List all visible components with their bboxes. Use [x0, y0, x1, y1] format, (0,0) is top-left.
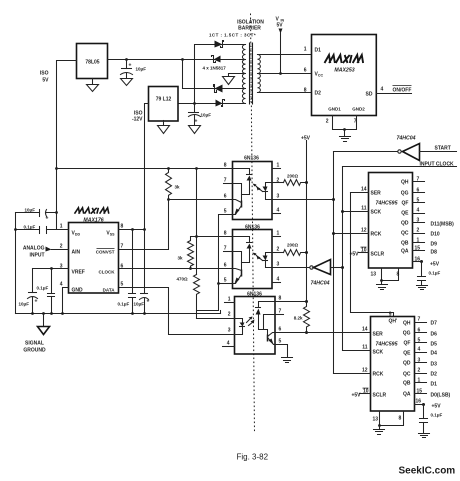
inverter U3B 74HC04: [310, 260, 331, 287]
svg-text:D9: D9: [431, 242, 438, 248]
svg-text:D11(MSB): D11(MSB): [431, 222, 455, 228]
node junction VSS 0.1uF: [131, 228, 134, 231]
ground below 78L05: [87, 79, 99, 92]
node junction ISO5V at 10uF wire: [55, 211, 58, 214]
wire ISO5V: 78L05 output left and down to MAX176 VDD: [57, 61, 77, 230]
opto2 pin 2 wire: [273, 247, 284, 253]
supply VIN 5V with arrow: [276, 17, 285, 74]
svg-text:SCK: SCK: [371, 210, 382, 216]
svg-text:7: 7: [418, 317, 421, 323]
opto2 internals: phototransistor: [233, 269, 242, 284]
label ON/OFF with overline: [393, 86, 412, 94]
svg-text:1: 1: [228, 297, 231, 303]
svg-text:QD: QD: [401, 221, 409, 227]
label ISO 5V: [40, 71, 49, 84]
svg-text:2: 2: [418, 368, 421, 374]
svg-text:QE: QE: [403, 351, 411, 357]
svg-text:-12V: -12V: [132, 117, 143, 123]
resistor R7 8.2k: [294, 302, 310, 333]
capacitor C5 0.1uF (VDD) plates: [24, 225, 47, 234]
transformer T1 primary winding (left): [242, 45, 245, 104]
svg-text:3: 3: [418, 358, 421, 364]
wire diode D3 line: [183, 88, 246, 90]
wire opto3 pin 2 to iso ground link: [197, 312, 235, 319]
opto1 pin 4 stub: [273, 208, 281, 214]
wire secondary top tap to MAX253 D1: [258, 54, 312, 56]
node junction opto pin5 bus: [217, 282, 220, 285]
node junction VSS -12V: [143, 228, 146, 231]
resistor R4 3k pullup (CLOCK): [177, 237, 196, 269]
isolation barrier dashed line: [251, 14, 255, 434]
svg-text:6: 6: [121, 264, 124, 270]
wire SCK1 from clock bus: [343, 206, 369, 212]
svg-text:QC: QC: [403, 372, 411, 378]
svg-text:QG: QG: [401, 191, 409, 197]
wire CLOCK from MAX176 to opto2 pin 6: [119, 268, 233, 270]
svg-text:D2: D2: [315, 91, 322, 97]
svg-text:12: 12: [361, 228, 367, 234]
svg-text:79 L12: 79 L12: [156, 97, 172, 103]
output stubs QH-QA U9: [415, 317, 427, 395]
wire INPUT CLOCK bus vertical down to SCK2: [342, 167, 344, 351]
svg-text:5: 5: [417, 198, 420, 204]
svg-text:AIN: AIN: [72, 250, 81, 256]
node junction GND: [343, 128, 346, 131]
svg-text:6: 6: [417, 188, 420, 194]
node junction VIN on Vcc wire: [279, 72, 282, 75]
opto2 pin 1 stub: [273, 231, 281, 237]
svg-text:+5V: +5V: [301, 136, 311, 142]
svg-text:10μF: 10μF: [25, 208, 36, 213]
svg-text:1: 1: [277, 231, 280, 237]
wire left vertical to ground rail: [15, 213, 17, 314]
svg-text:SD: SD: [366, 92, 373, 98]
svg-text:10μF: 10μF: [136, 67, 147, 72]
svg-text:8: 8: [399, 416, 402, 422]
wire opto2 pin 8: [197, 236, 233, 238]
svg-text:6: 6: [304, 68, 307, 74]
svg-text:SCK: SCK: [373, 350, 384, 356]
svg-text:8: 8: [304, 88, 307, 94]
wire bus D2-D3: [182, 60, 184, 89]
svg-text:8.2k: 8.2k: [294, 316, 303, 321]
node junction inverter input / clock bus: [341, 266, 344, 269]
svg-text:GND1: GND1: [328, 107, 341, 112]
diode D3 1N5817: [214, 85, 223, 93]
wire U9 pins 13,8 to ground: [373, 412, 404, 435]
node junction ISO5V at rail: [55, 167, 58, 170]
svg-text:2: 2: [277, 178, 280, 184]
wire 78L05 input to rectifier bus: [108, 59, 183, 61]
svg-text:4: 4: [227, 341, 230, 347]
transformer center tap ground wire: [223, 74, 246, 85]
transformer turns-ratio label 1CT:1.5CT:3CT: [209, 33, 256, 38]
svg-text:D1: D1: [431, 382, 438, 388]
wire SCK2 from clock bus: [343, 345, 371, 351]
svg-text:QH: QH: [401, 180, 409, 186]
svg-text:16: 16: [415, 257, 421, 263]
svg-text:BARRIER: BARRIER: [238, 26, 261, 32]
svg-text:4: 4: [381, 87, 384, 93]
opto3 pin 1 stub: [225, 297, 235, 303]
svg-text:0.1μF: 0.1μF: [24, 225, 36, 230]
signal ground symbol: [23, 314, 49, 354]
svg-text:0.1μF: 0.1μF: [429, 271, 441, 276]
svg-text:+5V: +5V: [432, 404, 442, 410]
opto3 pin 4 stub: [223, 341, 235, 347]
svg-text:D0(LSB): D0(LSB): [431, 393, 451, 399]
wire opto3 pin 5 to ground: [275, 339, 288, 358]
svg-text:3: 3: [228, 328, 231, 334]
node junction pin3/START bus: [332, 198, 335, 201]
svg-text:5: 5: [224, 209, 227, 215]
svg-text:VREF: VREF: [72, 270, 85, 276]
wire INPUT CLOCK: [343, 166, 457, 168]
svg-text:QE: QE: [401, 211, 409, 217]
wire diode D2 line: [183, 59, 246, 61]
svg-text:1: 1: [60, 224, 63, 230]
svg-text:6N136: 6N136: [244, 156, 259, 162]
wire opto3 pin 8 to +5V rail: [275, 296, 307, 302]
transformer core: [250, 43, 253, 105]
wire SD to ON/OFF: [377, 87, 412, 94]
node junction rectifier bus D2/D3: [181, 58, 184, 61]
diode D2 1N5817: [212, 56, 221, 63]
ground below MAX253: [340, 130, 351, 142]
node junction 3k bottom on CLOCK line: [189, 267, 192, 270]
svg-text:D5: D5: [431, 342, 438, 348]
svg-text:+5V: +5V: [349, 252, 359, 258]
svg-text:6: 6: [279, 327, 282, 333]
svg-text:0.1μF: 0.1μF: [37, 286, 49, 291]
wire DATA to opto3 pin 3: [119, 288, 235, 335]
node junction VDD left: [14, 228, 17, 231]
wire SER2 pin14: [362, 327, 368, 333]
wire opto1 pin6 to 3k/CONVST node: [169, 199, 233, 201]
isolation barrier label: [237, 20, 264, 32]
svg-text:+: +: [129, 63, 132, 69]
svg-text:74HC595: 74HC595: [376, 342, 398, 348]
svg-text:10μF: 10μF: [201, 113, 212, 118]
svg-text:5: 5: [121, 282, 124, 288]
svg-text:74HC04: 74HC04: [311, 281, 330, 287]
svg-text:+5V: +5V: [430, 262, 440, 268]
svg-text:RCK: RCK: [373, 372, 384, 378]
svg-text:2: 2: [417, 228, 420, 234]
svg-text:INPUT: INPUT: [30, 253, 45, 259]
svg-text:2: 2: [326, 119, 329, 125]
opto3 internals: photodiode from pin8: [256, 302, 275, 335]
svg-text:6: 6: [224, 263, 227, 269]
svg-text:10μF: 10μF: [134, 302, 145, 307]
adc U6 MAX176: [69, 208, 119, 294]
wire inverter input to INPUT CLOCK bus: [331, 267, 343, 269]
svg-text:ISO: ISO: [40, 71, 49, 77]
svg-text:+5V: +5V: [351, 393, 361, 399]
wire 10uF branch (VDD): [16, 212, 57, 214]
capacitor 0.1uF U9: [419, 405, 443, 438]
wire RCK1 from START bus: [334, 228, 369, 234]
wire ISO rail branch down to opto2 pin8 and 470: [196, 169, 198, 275]
svg-text:0.1μF: 0.1μF: [118, 302, 130, 307]
resistor R6 470 ohm: [177, 275, 200, 319]
svg-text:D4: D4: [431, 351, 438, 357]
svg-text:7: 7: [417, 177, 420, 183]
svg-text:12: 12: [362, 368, 368, 374]
svg-text:D7: D7: [431, 321, 438, 327]
svg-text:4: 4: [417, 208, 420, 214]
opto1 internals: base from pin7: [233, 184, 242, 201]
capacitor C8 0.1uF (VSS): [118, 230, 136, 314]
capacitor C2 10uF at 79L12 input: [189, 104, 212, 134]
wire START bus vertical down to RCK2: [333, 152, 335, 374]
svg-text:QB: QB: [401, 241, 409, 247]
opto2 internals: LED: [263, 253, 273, 268]
svg-text:SIGNAL: SIGNAL: [25, 341, 44, 347]
svg-text:ON/OFF: ON/OFF: [393, 88, 412, 94]
svg-text:D3: D3: [431, 362, 438, 368]
svg-text:8: 8: [121, 224, 124, 230]
wire signal ground rail: [16, 313, 221, 315]
wire diode D4 line / 79L12 input: [179, 103, 246, 105]
svg-text:D10: D10: [431, 232, 440, 238]
capacitor C6 10uF (VREF): [19, 269, 38, 314]
node junction 79L12 input: [193, 102, 196, 105]
node junction 200ohm to +5V rail: [305, 181, 308, 184]
svg-text:4: 4: [277, 277, 280, 283]
svg-text:1: 1: [417, 238, 420, 244]
svg-text:CONVST: CONVST: [96, 250, 115, 255]
wire U8 pins 13,8 to ground: [371, 269, 400, 290]
svg-text:MAX253: MAX253: [334, 68, 354, 74]
node junction SCK1: [341, 210, 344, 213]
svg-text:3: 3: [277, 262, 280, 268]
node junctions on ground rail: [31, 312, 34, 315]
opto1 pin 2 wire: [273, 178, 284, 184]
resistor R2 3k pullup (CONVST): [166, 169, 181, 200]
output stubs QH-QA U8: [413, 177, 425, 252]
optocoupler U4 6N136: [233, 156, 273, 220]
svg-text:7: 7: [121, 244, 124, 250]
resistor R3 200 ohm: [284, 174, 307, 186]
svg-text:SCLR: SCLR: [371, 252, 385, 258]
wire iso ground rail end to pin5 bus: [220, 311, 222, 314]
wire opto3 pin 6 to 74HC595#2 SER: [275, 327, 371, 333]
opto3 internals: phototransistor: [268, 333, 275, 345]
svg-text:200Ω: 200Ω: [287, 174, 299, 179]
labels D11..D8: [431, 222, 455, 256]
capacitor 0.1uF U8: [417, 262, 441, 290]
svg-text:4 x 1N5817: 4 x 1N5817: [203, 66, 227, 71]
opto2 pin 7 stub: [224, 246, 233, 252]
opto1 internals: photodiode feed from pin8: [233, 169, 252, 195]
svg-text:SeekIC.com: SeekIC.com: [399, 466, 456, 477]
node junction VREF 0.1uF: [50, 267, 53, 270]
svg-text:10: 10: [363, 389, 369, 395]
svg-text:74HC595: 74HC595: [376, 201, 398, 207]
svg-text:GROUND: GROUND: [23, 348, 46, 354]
ground at opto3 pin5: [282, 358, 293, 363]
wire SCLR1 tied +5V: [349, 247, 368, 257]
svg-text:11: 11: [362, 345, 368, 351]
diode D1 1N5817: [215, 41, 224, 48]
svg-text:SER: SER: [373, 332, 384, 338]
wire GND pin4: [63, 288, 69, 314]
svg-text:DATA: DATA: [103, 288, 116, 293]
wire secondary center tap to MAX253 Vcc: [258, 73, 312, 75]
svg-text:1: 1: [418, 378, 421, 384]
svg-text:3: 3: [417, 218, 420, 224]
wire VREF pin3: [33, 268, 69, 270]
node junction 8.2k bottom / SER2 line: [305, 331, 308, 334]
svg-text:QF: QF: [402, 201, 409, 207]
svg-text:13: 13: [371, 272, 377, 278]
wire secondary bottom tap to MAX253 D2: [258, 92, 312, 94]
wire opto2 pin 5 to iso ground: [219, 278, 233, 284]
svg-text:QA: QA: [403, 392, 411, 398]
svg-text:8: 8: [279, 296, 282, 302]
resistor R5 200 ohm: [284, 243, 307, 256]
wire diode D1 line and bus D1-D4: [195, 45, 246, 104]
svg-text:5: 5: [224, 278, 227, 284]
svg-text:6: 6: [224, 194, 227, 200]
transformer T1 secondary winding (right): [258, 55, 261, 93]
svg-text:10: 10: [361, 248, 367, 254]
svg-text:74HC04: 74HC04: [397, 136, 416, 142]
svg-text:QG: QG: [403, 331, 411, 337]
svg-text:QH': QH': [389, 319, 398, 325]
op chip U2 MAX253: [312, 35, 377, 116]
wire VSS pin8 to -12V: [119, 229, 145, 231]
svg-text:470Ω: 470Ω: [177, 277, 189, 282]
svg-text:5: 5: [418, 338, 421, 344]
svg-text:CLOCK: CLOCK: [99, 270, 116, 275]
svg-text:1: 1: [304, 47, 307, 53]
svg-text:6: 6: [418, 328, 421, 334]
wire VDD pin1 with series cap gap: [16, 229, 69, 231]
node junction 3k R2 on ISO rail: [167, 167, 170, 170]
node junction at C1: [125, 58, 128, 61]
optocoupler U7 6N136: [235, 292, 276, 355]
svg-text:SCLR: SCLR: [373, 393, 387, 399]
opto1 internals: phototransistor: [233, 200, 242, 215]
wire ISO5V rail to opto1 pin 8: [57, 168, 233, 170]
svg-text:2: 2: [228, 312, 231, 318]
svg-text:8: 8: [224, 231, 227, 237]
svg-text:8: 8: [224, 163, 227, 169]
opto3 internals: LED: [235, 319, 245, 335]
svg-text:5V: 5V: [277, 23, 284, 29]
wire GND1/GND2 to ground: [326, 116, 357, 130]
capacitor C4 10uF (VDD): [25, 208, 49, 222]
opto2 internals: photodiode feed from pin8: [233, 237, 252, 263]
svg-text:QC: QC: [401, 231, 409, 237]
svg-text:1: 1: [277, 163, 280, 169]
svg-text:D8: D8: [431, 250, 438, 256]
wire SER1 from cascade: [351, 187, 369, 193]
wire pin16 U9 to +5V: [415, 399, 442, 410]
svg-text:2: 2: [277, 247, 280, 253]
optocoupler U5 6N136: [233, 225, 273, 289]
ground below 79L12: [158, 121, 170, 134]
svg-text:16: 16: [416, 399, 422, 405]
node junction opto2 pin8: [195, 235, 198, 238]
svg-text:QB: QB: [403, 381, 411, 387]
svg-text:START: START: [435, 146, 451, 152]
node junction 200ohm#2 to +5V rail: [305, 251, 308, 254]
svg-text:D1: D1: [315, 48, 322, 54]
capacitor C9 10uF (VSS): [134, 230, 150, 314]
opto2 internals: light arrows: [253, 253, 263, 261]
capacitor C7 0.1uF (VREF): [37, 269, 55, 314]
wire opto1 pin 3 to START bus: [273, 194, 334, 200]
svg-text:INPUT CLOCK: INPUT CLOCK: [420, 162, 455, 168]
inverter U3A 74HC04 (START): [397, 136, 420, 161]
svg-text:14: 14: [362, 327, 368, 333]
regulator U2 79L12: [149, 87, 179, 122]
diode D4 1N5817: [216, 100, 225, 107]
svg-text:7: 7: [279, 309, 282, 315]
supply +5V rail: [301, 136, 311, 302]
svg-text:9: 9: [389, 312, 392, 318]
wire opto1 pin 5 down to iso ground: [219, 209, 233, 284]
svg-text:15: 15: [415, 246, 421, 252]
svg-text:10μF: 10μF: [19, 302, 30, 307]
svg-text:8: 8: [397, 272, 400, 278]
svg-text:1CT : 1.5CT : 3CT*: 1CT : 1.5CT : 3CT*: [209, 33, 256, 38]
wire 79L12 output (ISO -12V) to MAX176 VSS: [145, 104, 149, 230]
opto1 internals: LED from pins 2/3: [263, 183, 273, 200]
opto3 internals: base from pin7: [264, 315, 275, 330]
svg-text:3: 3: [277, 194, 280, 200]
svg-text:+: +: [147, 299, 150, 305]
wire opto2 pin 3 to inverter output: [273, 262, 310, 268]
svg-text:4: 4: [418, 347, 421, 353]
opto2 internals: base from pin7: [233, 252, 242, 270]
svg-text:15: 15: [417, 389, 423, 395]
svg-text:3k: 3k: [177, 256, 183, 261]
wire START input: [420, 151, 457, 153]
svg-text:+: +: [46, 216, 49, 222]
svg-text:ANALOG: ANALOG: [23, 246, 45, 252]
svg-text:D2: D2: [431, 372, 438, 378]
svg-text:GND2: GND2: [352, 107, 365, 112]
opto2 pin 4 stub: [273, 277, 281, 283]
shift register U8 74HC595: [369, 173, 413, 269]
opto3 internals: light arrows: [247, 317, 255, 326]
node junction opto2 branch on ISO rail: [195, 167, 198, 170]
svg-text:14: 14: [361, 187, 367, 193]
svg-text:4: 4: [277, 208, 280, 214]
svg-text:13: 13: [373, 417, 379, 423]
svg-text:78L05: 78L05: [85, 60, 99, 66]
svg-text:200Ω: 200Ω: [287, 243, 299, 248]
svg-text:QD: QD: [403, 361, 411, 367]
label ISO -12V: [132, 111, 143, 123]
wire pin16 U8 to +5V: [413, 257, 440, 268]
svg-text:5: 5: [279, 339, 282, 345]
opto1 internals: light arrows: [253, 184, 263, 192]
wire cascade QH'2 to SER1: [351, 193, 394, 317]
wire CONVST from MAX176 up to opto1 pin6 node: [119, 200, 169, 250]
svg-text:7: 7: [224, 246, 227, 252]
node junction +5V / 8.2k: [305, 300, 308, 303]
svg-text:7: 7: [224, 178, 227, 184]
capacitor C1 10uF at 78L05 input: [121, 60, 147, 86]
analog input arrow: [23, 246, 69, 259]
svg-text:4: 4: [60, 282, 63, 288]
svg-text:7: 7: [354, 119, 357, 125]
